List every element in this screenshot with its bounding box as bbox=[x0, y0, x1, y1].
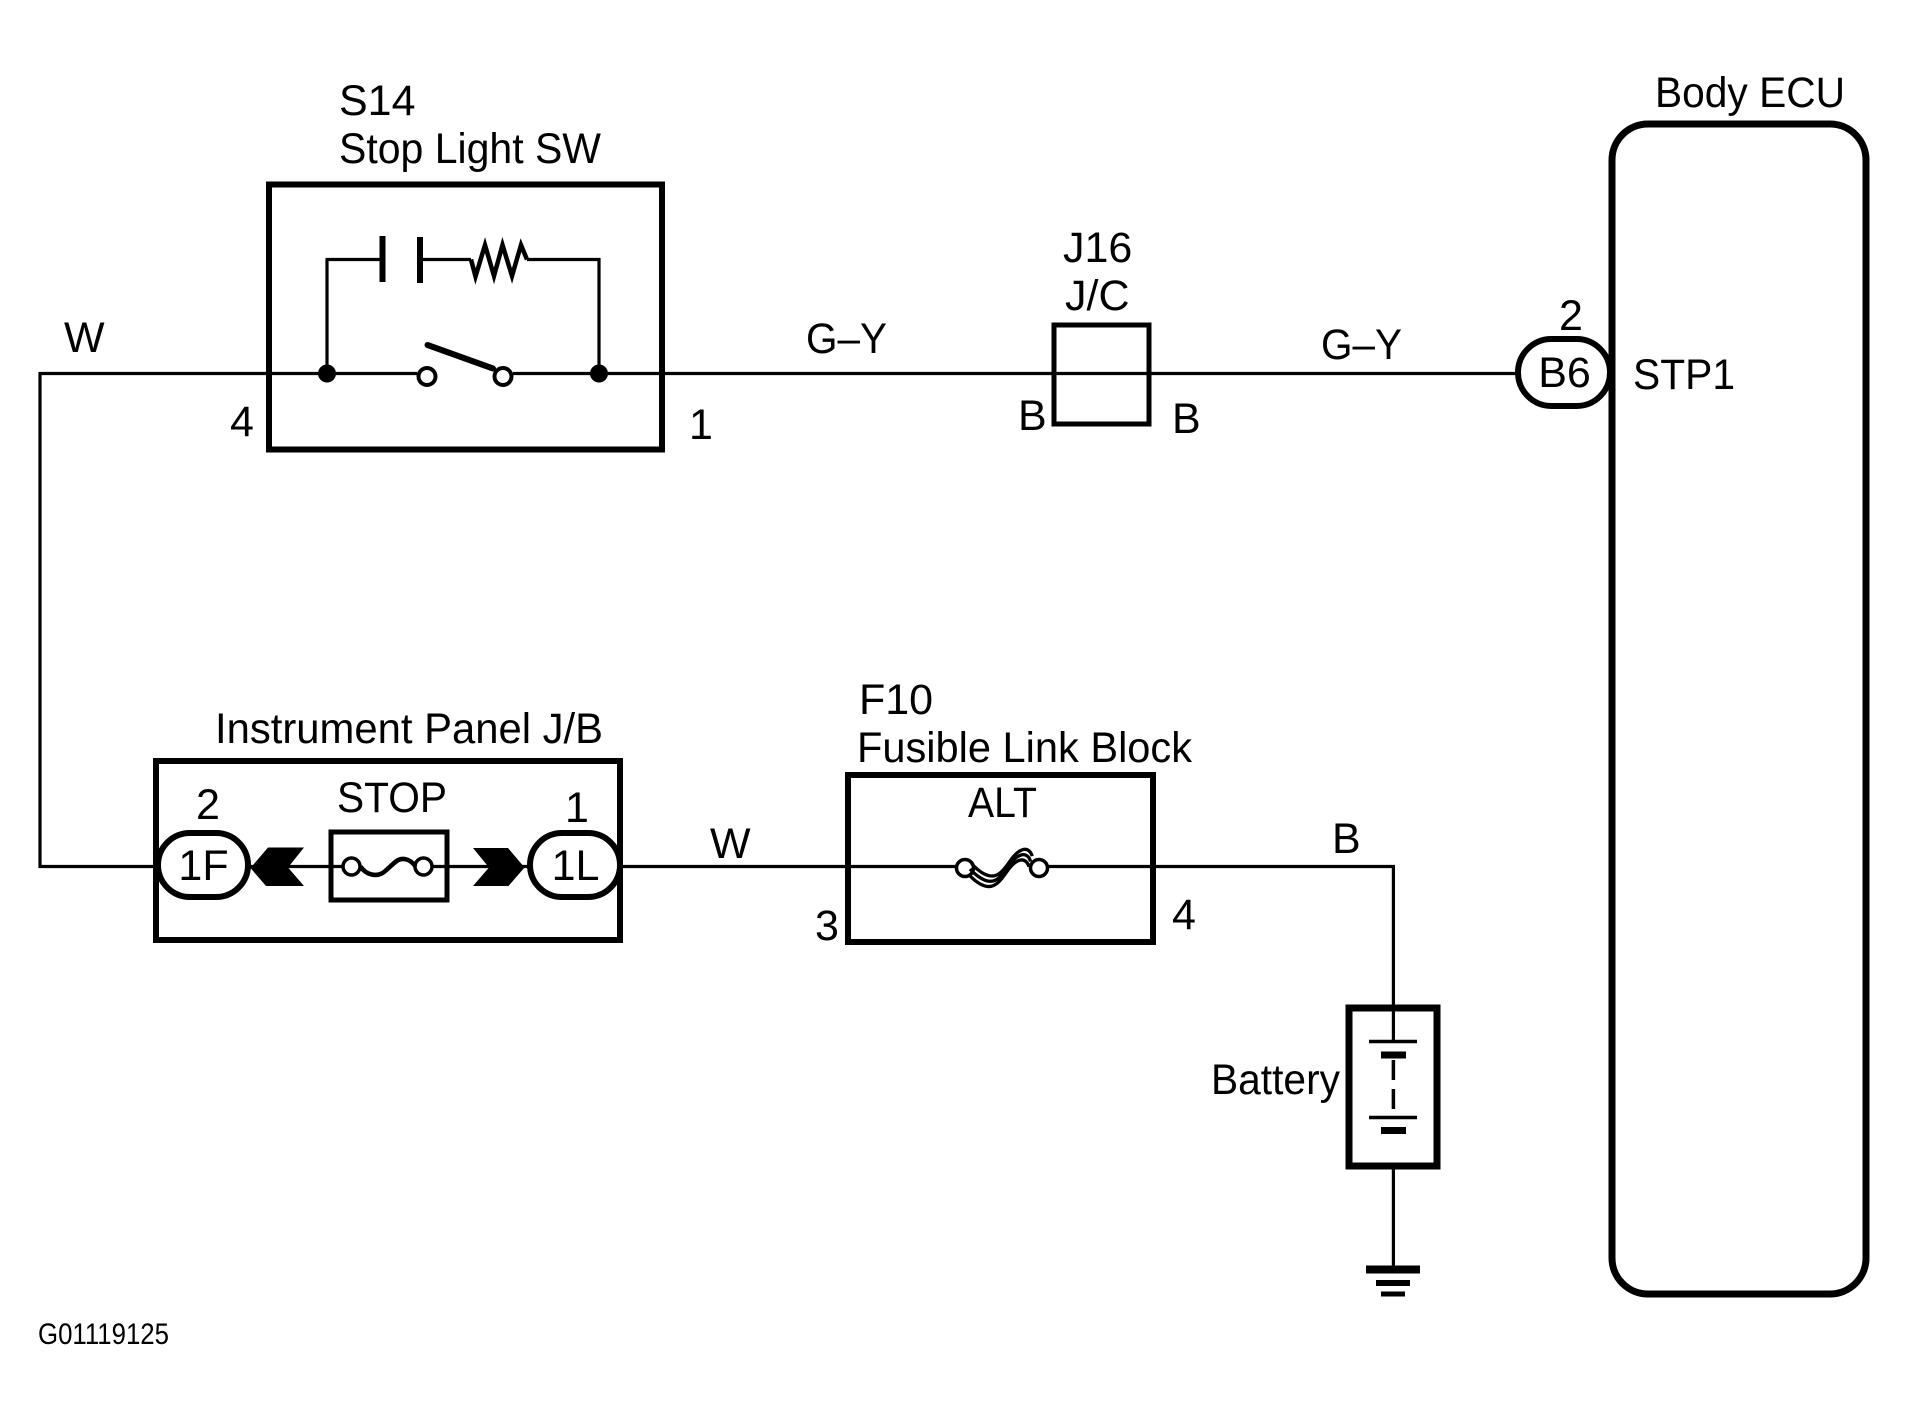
Body ECU outline box bbox=[1612, 124, 1866, 1294]
svg-text:ALT: ALT bbox=[968, 779, 1037, 827]
wire: branch resistor to right vertical bbox=[527, 258, 600, 261]
wire: battery to ground bbox=[1392, 1130, 1395, 1268]
wire: lower B wire ALT to corner and down to battery bbox=[1038, 867, 1393, 1009]
capacitor contact bar left bbox=[380, 236, 386, 282]
STOP fuse element wavy link bbox=[361, 859, 416, 875]
arrow pointing right at 1L bbox=[473, 848, 525, 886]
S14 Stop Light SW box bbox=[269, 185, 662, 450]
battery wire inside from top bbox=[1392, 1008, 1395, 1040]
node: junction dot right (pin 1 side) bbox=[590, 365, 608, 383]
F10 Fusible Link Block box bbox=[848, 775, 1153, 942]
ground symbol line 1 bbox=[1366, 1266, 1420, 1274]
STOP fuse terminal circle left bbox=[343, 858, 360, 875]
battery plate long bottom bbox=[1369, 1116, 1417, 1120]
svg-text:J/C: J/C bbox=[1065, 272, 1130, 320]
battery plate short thick bottom bbox=[1381, 1127, 1406, 1134]
wire: branch right vertical down to main wire bbox=[597, 258, 600, 372]
svg-text:2: 2 bbox=[196, 781, 220, 829]
S14 Stop Light SW internal parallel branch: left vertical wire bbox=[325, 260, 328, 372]
svg-text:Body ECU: Body ECU bbox=[1655, 69, 1845, 117]
wire: branch between contact and resistor bbox=[423, 258, 471, 261]
svg-text:Battery: Battery bbox=[1211, 1056, 1340, 1104]
ALT fusible link terminal circle right bbox=[1031, 860, 1048, 877]
svg-text:STP1: STP1 bbox=[1633, 351, 1735, 399]
svg-text:S14: S14 bbox=[339, 77, 416, 125]
svg-text:4: 4 bbox=[230, 398, 254, 446]
svg-text:1: 1 bbox=[689, 401, 713, 449]
resistor zigzag inside S14 bbox=[471, 245, 527, 277]
node: junction dot left (pin 4 side) bbox=[318, 365, 336, 383]
ALT fusible link wavy element stroke 1 bbox=[972, 849, 1033, 876]
svg-text:B6: B6 bbox=[1538, 349, 1591, 397]
svg-text:Fusible Link Block: Fusible Link Block bbox=[857, 724, 1192, 772]
svg-text:B: B bbox=[1018, 392, 1047, 440]
svg-text:J16: J16 bbox=[1063, 224, 1132, 272]
wire: main horizontal W/G-Y wire (left segment to switch) bbox=[39, 372, 417, 375]
svg-text:W: W bbox=[64, 314, 105, 362]
wire: lower W wire STOP fuse to ALT fusible link bbox=[423, 865, 966, 868]
svg-text:G–Y: G–Y bbox=[1321, 321, 1402, 369]
svg-text:W: W bbox=[710, 820, 751, 868]
wire: branch top left horizontal bbox=[326, 258, 381, 261]
STOP fuse box bbox=[331, 832, 447, 900]
battery plate short thick top bbox=[1381, 1052, 1406, 1059]
svg-text:G01119125: G01119125 bbox=[38, 1318, 169, 1351]
J16 J/C junction box bbox=[1054, 325, 1149, 424]
ALT fusible link wavy element stroke 2 bbox=[970, 855, 1031, 882]
capacitor contact bar right bbox=[417, 237, 423, 283]
svg-text:Instrument Panel J/B: Instrument Panel J/B bbox=[215, 705, 603, 753]
STOP fuse terminal circle right bbox=[415, 858, 432, 875]
svg-text:F10: F10 bbox=[859, 676, 933, 724]
svg-text:G–Y: G–Y bbox=[806, 315, 887, 363]
svg-text:1F: 1F bbox=[178, 842, 228, 890]
wire: lower W wire 1F to STOP fuse bbox=[203, 865, 352, 868]
ground symbol line 2 bbox=[1376, 1280, 1410, 1286]
svg-text:B: B bbox=[1172, 395, 1201, 443]
svg-text:3: 3 bbox=[815, 902, 839, 950]
svg-text:STOP: STOP bbox=[337, 774, 447, 822]
svg-text:B: B bbox=[1332, 815, 1361, 863]
svg-text:4: 4 bbox=[1172, 891, 1196, 939]
battery dashed center line bbox=[1392, 1060, 1396, 1113]
switch contact circle right bbox=[495, 368, 512, 385]
wire: W wire left vertical down and to Instrument Panel J/B pin 1F bbox=[40, 372, 203, 867]
Battery box bbox=[1349, 1008, 1437, 1166]
connector B6 oval bbox=[1518, 339, 1610, 406]
ground symbol line 3 bbox=[1381, 1292, 1405, 1297]
arrow pointing left at 1F bbox=[251, 848, 305, 887]
svg-text:1L: 1L bbox=[552, 842, 600, 890]
connector oval 1F bbox=[158, 833, 248, 897]
ALT fusible link terminal circle left bbox=[957, 860, 974, 877]
svg-text:2: 2 bbox=[1559, 292, 1583, 340]
wire: main horizontal G-Y wire (switch to B6 connector) bbox=[513, 372, 1519, 375]
switch blade bbox=[428, 345, 494, 369]
connector oval 1L bbox=[530, 833, 620, 897]
ALT fusible link wavy element stroke 3 bbox=[968, 860, 1029, 887]
switch contact circle left bbox=[419, 368, 436, 385]
battery plate long top bbox=[1369, 1040, 1417, 1044]
Instrument Panel J/B box bbox=[156, 761, 620, 940]
svg-text:Stop Light SW: Stop Light SW bbox=[339, 125, 601, 173]
svg-text:1: 1 bbox=[565, 784, 589, 832]
